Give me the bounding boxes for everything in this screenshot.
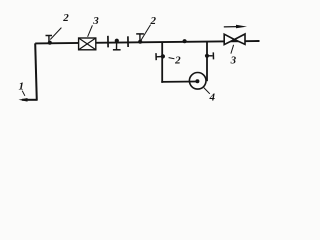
wire bypass left drop xyxy=(161,42,163,82)
valve 2 (tap on main line, left) xyxy=(46,12,70,45)
wire riser left (pipe 1) xyxy=(35,43,37,100)
label 1 xyxy=(18,80,24,95)
svg-text:2: 2 xyxy=(149,15,156,27)
valve 2 (tap on main line, middle) xyxy=(136,15,156,44)
flange tick xyxy=(107,36,109,48)
valve (tap on discharge) xyxy=(205,52,214,59)
wire main line xyxy=(35,41,259,43)
svg-text:3: 3 xyxy=(92,15,99,27)
flow arrow xyxy=(224,25,247,29)
svg-text:3: 3 xyxy=(230,54,237,66)
valve 3 (gate valve bowtie) xyxy=(224,34,245,66)
inlet arrow xyxy=(19,98,37,102)
flange tick xyxy=(127,36,129,47)
node junction dot xyxy=(183,39,187,43)
drain valve (down tap) xyxy=(113,39,121,50)
valve 2 (tap on bypass) xyxy=(156,53,181,66)
wire bypass bottom run xyxy=(161,81,197,83)
svg-text:2: 2 xyxy=(174,54,181,66)
svg-text:4: 4 xyxy=(209,92,216,104)
svg-text:2: 2 xyxy=(62,12,69,24)
pump 4 xyxy=(189,73,215,104)
device 3 (crossed box) xyxy=(79,15,100,50)
svg-text:1: 1 xyxy=(18,80,24,92)
wire pump discharge riser xyxy=(206,42,208,81)
